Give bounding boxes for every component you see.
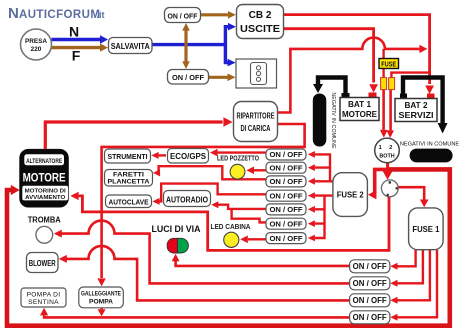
wire: main trunk right side and bottom bus and left trunk [7, 169, 450, 325]
arrowheads into right ON/OFF boxes [390, 263, 397, 270]
svg-text:AUTICFORUM: AUTICFORUM [19, 9, 100, 21]
wire: FUSE2 fan lower group [315, 196, 333, 238]
svg-text:SERVIZI: SERVIZI [399, 111, 434, 120]
svg-text:LED POZZETTO: LED POZZETTO [217, 154, 259, 163]
wire: alternator to ripartitore [45, 122, 222, 149]
luci di via red/green lamp [167, 238, 188, 253]
strumenti box [105, 149, 151, 163]
svg-text:ON / OFF: ON / OFF [353, 279, 387, 288]
wire: brown riser to ON/OFF switches [184, 30, 187, 63]
FUSE 2 box [333, 173, 368, 217]
wire: CB2 output A to BAT2 positive [284, 15, 430, 84]
wire: fuse feed left [382, 49, 384, 78]
wire: FUSE2 fan upper group [315, 154, 333, 181]
svg-text:LED CABINA: LED CABINA [211, 222, 251, 231]
svg-text:POMPA: POMPA [89, 299, 114, 306]
wire: blue salvavita output to CB2 and outlet [152, 27, 229, 63]
logo NauticForum.it [8, 5, 105, 22]
arrowhead into MOTORE right [70, 192, 78, 200]
svg-text:LUCI DI VIA: LUCI DI VIA [152, 224, 201, 234]
wire: brown F from presa to salvavita [52, 46, 101, 49]
svg-text:ON / OFF: ON / OFF [270, 150, 303, 159]
svg-text:ON / OFF: ON / OFF [270, 177, 303, 186]
svg-text:FUSE 2: FUSE 2 [337, 190, 364, 200]
wire: ON/OFF 3 to faretti plancetta [156, 166, 266, 179]
svg-text:FUSE: FUSE [381, 61, 396, 68]
FUSE 1 box [409, 208, 444, 250]
wire: ON/OFF 2 to led pozzetto [254, 169, 266, 171]
salvavita box [109, 38, 153, 54]
svg-text:PRESA: PRESA [25, 38, 47, 45]
svg-text:NEGATIV IN COMUNE: NEGATIV IN COMUNE [330, 92, 336, 149]
arrowhead into eco/gps [210, 149, 218, 157]
svg-text:.it: .it [97, 10, 105, 20]
wire: FUSE1 pin 4 to ON/OFF [394, 250, 437, 318]
eco/gps box [168, 149, 209, 164]
arrowhead up into luci LED [172, 254, 180, 261]
tromba horn circle [36, 226, 53, 243]
right ON/OFF column boxes 1-4 [350, 260, 390, 324]
svg-text:AUTORADIO: AUTORADIO [166, 195, 208, 205]
arrowhead into ripartitore [223, 117, 232, 127]
svg-text:SALVAVITA: SALVAVITA [111, 42, 150, 51]
svg-text:GALLEGGIANTE: GALLEGGIANTE [81, 291, 121, 298]
wire: ON/OFF 5 to autoradio [217, 205, 266, 209]
wire: galleggiante bottom to bus [100, 308, 103, 309]
battery BAT2 SERVIZI [427, 94, 435, 99]
wire: fuse feed right from BAT2 line [391, 73, 429, 78]
CB 2 USCITE box [237, 5, 284, 39]
svg-text:MOTORE: MOTORE [342, 110, 378, 119]
battery BAT1 MOTORE [369, 93, 377, 99]
fuse inline right [389, 78, 395, 90]
svg-text:AUTOCLAVE: AUTOCLAVE [109, 197, 149, 206]
svg-text:MOTORE: MOTORE [23, 173, 66, 185]
svg-text:AVVIAMENTO: AVVIAMENTO [25, 195, 65, 201]
presa 220 circle [21, 29, 52, 60]
arrowhead into BAT1 terminal [369, 84, 378, 92]
svg-text:ON / OFF: ON / OFF [270, 234, 303, 243]
ignition key switch [381, 180, 398, 197]
arrowhead into ignition top [383, 171, 393, 180]
negative bus bar horizontal [410, 149, 453, 163]
svg-text:ON / OFF: ON / OFF [172, 73, 204, 82]
arrowheads into middle ON/OFF boxes [308, 151, 315, 158]
switch ON/OFF top 1 [165, 8, 201, 23]
svg-text:1 2: 1 2 [379, 145, 396, 151]
svg-text:N: N [8, 5, 19, 22]
wire: brown ON/OFF2 to outlet [209, 76, 228, 79]
wire: BOTH output stub [386, 163, 389, 170]
outlet socket symbol [236, 59, 277, 88]
wire: blue N from presa to salvavita [52, 38, 101, 41]
galleggiante pompa box [79, 287, 124, 308]
wire: ripartitore output 1 to BAT2 line with hop [278, 38, 420, 113]
wire: ON/OFF 7 to led cabina [248, 238, 266, 240]
switch ON/OFF top 2 [168, 70, 209, 85]
motore assembly black box [19, 149, 69, 208]
alternatore label [24, 154, 65, 166]
svg-text:ON / OFF: ON / OFF [270, 163, 303, 172]
svg-text:FARETTI: FARETTI [113, 172, 144, 179]
wire: FUSE1 pin 1 to ON/OFF [394, 250, 416, 267]
arrowhead joining BAT2 vertical [419, 45, 427, 53]
ripartitore di carica box [234, 102, 278, 142]
wire: black BAT1 negative to common bar [318, 78, 346, 95]
wire: junction to FUSE2 [371, 169, 387, 194]
svg-text:USCITE: USCITE [240, 24, 280, 35]
middle ON/OFF column boxes 1-7 [266, 149, 306, 244]
svg-text:STRUMENTI: STRUMENTI [108, 152, 148, 161]
wire: right ON/OFF 3 to blower with hop [66, 246, 350, 301]
wire: ON/OFF 6 joins autoradio feed [232, 209, 266, 223]
svg-text:ON / OFF: ON / OFF [168, 11, 198, 20]
blower box [27, 253, 59, 273]
svg-text:CB 2: CB 2 [249, 10, 272, 21]
battery selector switch 1 2 BOTH [375, 138, 400, 163]
wire: eco/gps to strumenti arrow [159, 154, 166, 156]
svg-text:ON / OFF: ON / OFF [270, 205, 303, 214]
arrowheads into BOTH switch [380, 130, 388, 138]
svg-text:SENTINA: SENTINA [28, 299, 59, 306]
wire: ON/OFF 4 to autoclave [157, 184, 266, 202]
wire: ignition bottom to starter motor [79, 196, 389, 251]
svg-text:ECO/GPS: ECO/GPS [170, 152, 207, 161]
svg-text:NEGATIVI IN COMUNE: NEGATIVI IN COMUNE [400, 142, 460, 148]
arrowhead into tromba [54, 230, 62, 238]
arrowhead down to bus wire [98, 309, 106, 316]
svg-text:BAT 1: BAT 1 [348, 100, 371, 109]
svg-text:N: N [69, 24, 79, 40]
svg-text:RIPARTITORE: RIPARTITORE [237, 112, 275, 121]
svg-text:MOTORINO DI: MOTORINO DI [25, 188, 66, 194]
wire: FUSE1 pin 2 to ON/OFF [394, 250, 423, 284]
wire: fuse outputs down to BOTH switch [382, 90, 385, 130]
svg-text:BLOWER: BLOWER [29, 258, 57, 268]
wire: brown ON/OFF1 to CB2 [201, 13, 228, 16]
svg-text:ON / OFF: ON / OFF [270, 219, 303, 228]
svg-text:ON / OFF: ON / OFF [270, 191, 303, 200]
arrowhead into MOTORE left [11, 185, 20, 195]
svg-text:BAT 2: BAT 2 [404, 101, 427, 110]
svg-text:POMPA DI: POMPA DI [27, 292, 61, 299]
svg-text:FUSE 1: FUSE 1 [412, 224, 439, 234]
svg-text:DI CARICA: DI CARICA [241, 124, 271, 133]
fuse inline left [381, 78, 387, 90]
wire: ignition to FUSE1 [398, 187, 424, 199]
arrowhead into FUSE2 right [368, 190, 376, 199]
led pozzetto lamp [230, 164, 245, 179]
svg-text:ON / OFF: ON / OFF [353, 296, 387, 305]
svg-text:PLANCETTA: PLANCETTA [108, 179, 151, 186]
wire: FUSE1 pin 3 to ON/OFF [394, 250, 430, 301]
motorino di avviamento label [22, 186, 68, 201]
wire: right ON/OFF 4 to pompa di sentina [44, 315, 350, 317]
negative bus bar vertical [313, 94, 327, 147]
svg-text:BOTH: BOTH [379, 154, 394, 160]
faretti plancetta box [105, 170, 153, 187]
wire: CB2 output B to BAT1 positive [284, 29, 374, 83]
wire: black BAT2 negative to common bar [403, 78, 443, 124]
svg-text:TROMBA: TROMBA [28, 216, 61, 225]
svg-text:ALTERNATORE: ALTERNATORE [26, 158, 62, 165]
arrowhead up into pompa di sentina [40, 308, 48, 316]
svg-text:ON / OFF: ON / OFF [353, 262, 387, 271]
FUSE label box [379, 59, 399, 69]
wire: right ON/OFF 2 to tromba with hop [61, 221, 350, 284]
wire: ON/OFF 1 to eco/gps [218, 151, 266, 153]
wire: junction down to ignition switch [386, 169, 390, 171]
pompa di sentina box [21, 288, 66, 307]
arrowhead into FUSE1 top [420, 200, 429, 208]
autoradio box [164, 191, 211, 207]
svg-text:ON / OFF: ON / OFF [353, 313, 387, 322]
svg-text:F: F [72, 48, 81, 64]
arrowhead into galleggiante top [97, 278, 105, 286]
arrowhead into BAT2 terminal [425, 86, 434, 95]
wire: right ON/OFF 1 to luci di via [176, 258, 350, 266]
led cabina lamp [224, 232, 239, 247]
autoclave box [106, 195, 152, 208]
wire: ripartitore output 2 to galleggiante pompa [102, 124, 305, 278]
arrowhead into blower [59, 255, 67, 263]
svg-text:220: 220 [31, 46, 42, 53]
